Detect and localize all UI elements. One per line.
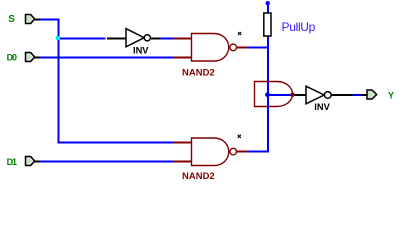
svg-text:D1: D1 xyxy=(7,157,17,167)
svg-text:NAND2: NAND2 xyxy=(182,66,215,77)
svg-text:S: S xyxy=(8,14,15,25)
svg-text:NAND2: NAND2 xyxy=(182,170,215,181)
svg-text:D0: D0 xyxy=(7,53,17,63)
svg-text:PullUp: PullUp xyxy=(282,20,316,34)
svg-text:INV: INV xyxy=(133,45,149,55)
svg-text:Y: Y xyxy=(388,91,394,101)
svg-text:INV: INV xyxy=(314,102,330,112)
